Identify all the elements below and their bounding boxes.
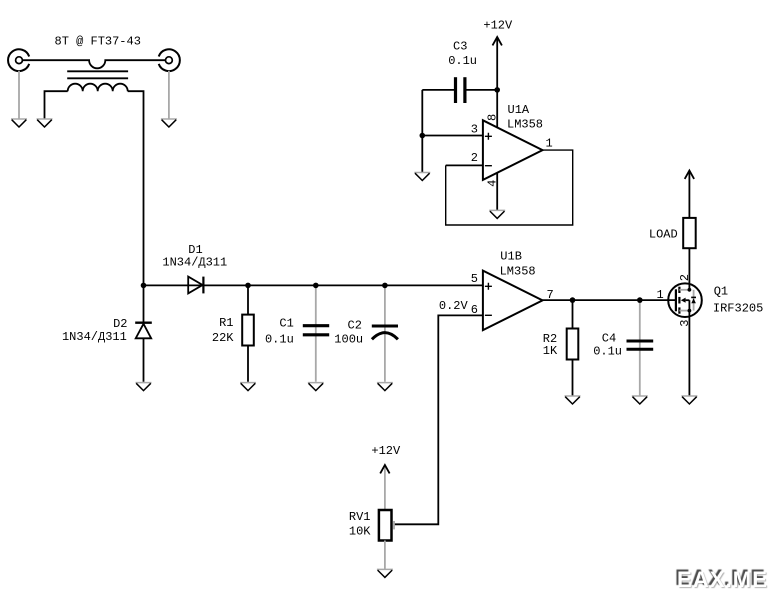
label R2 value 1K [543,344,558,358]
connector J2 (right BNC) [159,49,180,71]
svg-text:C1: C1 [279,317,293,331]
pin label 5 [471,272,478,286]
ground under C2 [377,383,393,391]
pin label 8 (rotated) [486,114,500,121]
label C1 [279,317,293,331]
svg-text:10K: 10K [349,525,371,539]
op-amp U1A [483,120,543,180]
pin label 4 (rotated) [486,180,500,187]
svg-text:3: 3 [471,122,478,136]
op-amp U1A plus input mark [485,133,492,140]
power +12V label (top) [483,19,513,33]
capacitor C4 [627,300,654,396]
svg-text:U1A: U1A [508,103,530,117]
svg-text:C2: C2 [348,319,362,333]
power +12V arrow (RV1) [380,465,389,510]
label R1 value 22K [212,331,234,345]
svg-text:R1: R1 [219,316,233,330]
pin label 3 (rotated, source) [678,319,692,326]
ground under D2 [136,383,152,391]
svg-text:Q1: Q1 [714,285,728,299]
svg-text:0.2V: 0.2V [439,299,469,313]
svg-text:22K: 22K [212,331,234,345]
node R1 junction dot [245,283,251,289]
resistor R2 [567,300,579,396]
pin label 7 [547,288,554,302]
diode D1 [188,277,203,294]
label U1B [500,249,522,263]
wire J1 ground drop [18,71,20,119]
pin label 1 (Q1 gate) [657,288,664,302]
svg-text:4: 4 [486,180,500,187]
ground under C4 [632,396,648,404]
svg-text:0.1u: 0.1u [593,345,622,359]
svg-text:LM358: LM358 [500,264,536,278]
pin label 3 [471,122,478,136]
ground under J2 [161,119,177,127]
svg-text:C3: C3 [453,39,467,53]
wire secondary right lead down to detector node [128,91,144,285]
label U1A value LM358 [507,118,543,132]
svg-text:IRF3205: IRF3205 [713,301,763,315]
svg-text:1K: 1K [543,344,558,358]
svg-text:1: 1 [657,288,664,302]
capacitor C1 [303,285,329,381]
svg-text:+12V: +12V [483,19,513,33]
resistor R1 [242,285,254,381]
ground secondary left [37,119,53,127]
label Q1 value IRF3205 [713,301,763,315]
svg-text:1: 1 [546,137,553,151]
label C2 [348,319,362,333]
svg-text:C4: C4 [602,331,616,345]
svg-text:5: 5 [471,272,478,286]
wire LOAD to Q1 drain [688,248,690,290]
label U1A [508,103,530,117]
svg-text:D2: D2 [113,317,127,331]
label RV1 value 10K [349,525,371,539]
node Q1 source dot [688,309,692,313]
label C4 [602,331,616,345]
label C2 value 100u [334,333,363,347]
wire primary (J1 to J2 with hop) [22,60,166,68]
label D2 [113,317,127,331]
node C1 junction dot [313,283,319,289]
label C1 value 0.1u [265,333,294,347]
pin label 2 (rotated, drain) [678,274,692,281]
transformer T1 label 8T @ FT37-43 [55,35,141,49]
node Q1 drain dot [688,288,692,292]
svg-text:2: 2 [471,151,478,165]
svg-text:2: 2 [678,274,692,281]
diode D2 [135,285,152,381]
resistor LOAD [683,218,696,248]
label D1 [188,243,202,257]
label Q1 [714,285,728,299]
transformer T1 core [67,71,128,78]
capacitor C2 (electrolytic) [372,285,398,381]
label C3 value 0.1u [448,54,477,68]
wire U1B output pin7 to Q1 gate [543,299,677,301]
svg-text:0.1u: 0.1u [265,333,294,347]
potentiometer RV1 [379,510,394,569]
wire main bus node A [144,284,483,286]
op-amp U1B plus input mark [485,283,492,290]
ground under R2 [565,396,581,404]
label LOAD [649,228,678,242]
wire secondary left lead [45,91,68,119]
watermark EAX.ME [677,567,768,590]
svg-text:+12V: +12V [371,444,401,458]
node C4 junction dot [637,297,643,303]
label R2 [543,332,557,346]
svg-text:LM358: LM358 [507,118,543,132]
wire Q1 source to ground [688,311,690,396]
transistor Q1 body circle [668,283,702,317]
ground under U1A pin4 [489,210,505,218]
svg-text:0.1u: 0.1u [448,54,477,68]
label RV1 [349,510,371,524]
wire U1B pin6 to RV1 wiper [394,315,483,524]
connector J1 (left BNC) [8,49,29,71]
wire U1A pin4 ground stub [496,173,498,211]
label 0.2V [439,299,469,313]
transformer T1 secondary winding [68,84,128,92]
pin label 6 [471,303,478,317]
power +12V arrow (top) [493,37,502,90]
svg-text:U1B: U1B [500,249,522,263]
ground under J1 [11,119,27,127]
wire U1A pin3 [422,135,483,137]
svg-text:8T @ FT37-43: 8T @ FT37-43 [55,35,141,49]
op-amp U1A minus input mark [485,165,492,167]
pin label 1 (U1A) [546,137,553,151]
ground under Q1 [681,396,697,404]
node R2 junction dot [570,297,576,303]
label U1B value LM358 [500,264,536,278]
label D2 value 1N34/Д311 [62,330,127,344]
ground under C1 [308,383,324,391]
svg-text:8: 8 [486,114,500,121]
power +12V label (RV1) [371,444,401,458]
node C2 junction dot [382,283,388,289]
label D1 value 1N34/Д311 [162,256,227,270]
wire U1A pin2 and feedback loop [446,164,483,166]
ground under RV1 [377,569,393,577]
wire C3 left to ground and pin3 node [421,90,423,172]
transistor Q1 internals [676,287,696,314]
node pin3 junction dot [420,133,426,139]
node C3/+12V junction dot [494,87,500,93]
svg-text:1N34/Д311: 1N34/Д311 [62,330,127,344]
pin label 2 [471,151,478,165]
svg-text:LOAD: LOAD [649,228,678,242]
svg-text:RV1: RV1 [349,510,371,524]
wire J2 ground drop [168,71,170,119]
op-amp U1B [483,271,543,331]
LOAD arrow (up) [685,171,694,218]
op-amp U1B minus input mark [485,314,492,316]
label R1 [219,316,233,330]
ground under R1 [240,383,256,391]
node A junction dot [141,283,147,289]
label C4 value 0.1u [593,345,622,359]
label C3 [453,39,467,53]
svg-text:1N34/Д311: 1N34/Д311 [162,256,227,270]
capacitor C3 [422,77,497,103]
wire U1A pin8 power stub [496,90,498,128]
wire U1A feedback loop [446,150,573,225]
ground under C3 left [414,173,430,181]
svg-text:100u: 100u [334,333,363,347]
